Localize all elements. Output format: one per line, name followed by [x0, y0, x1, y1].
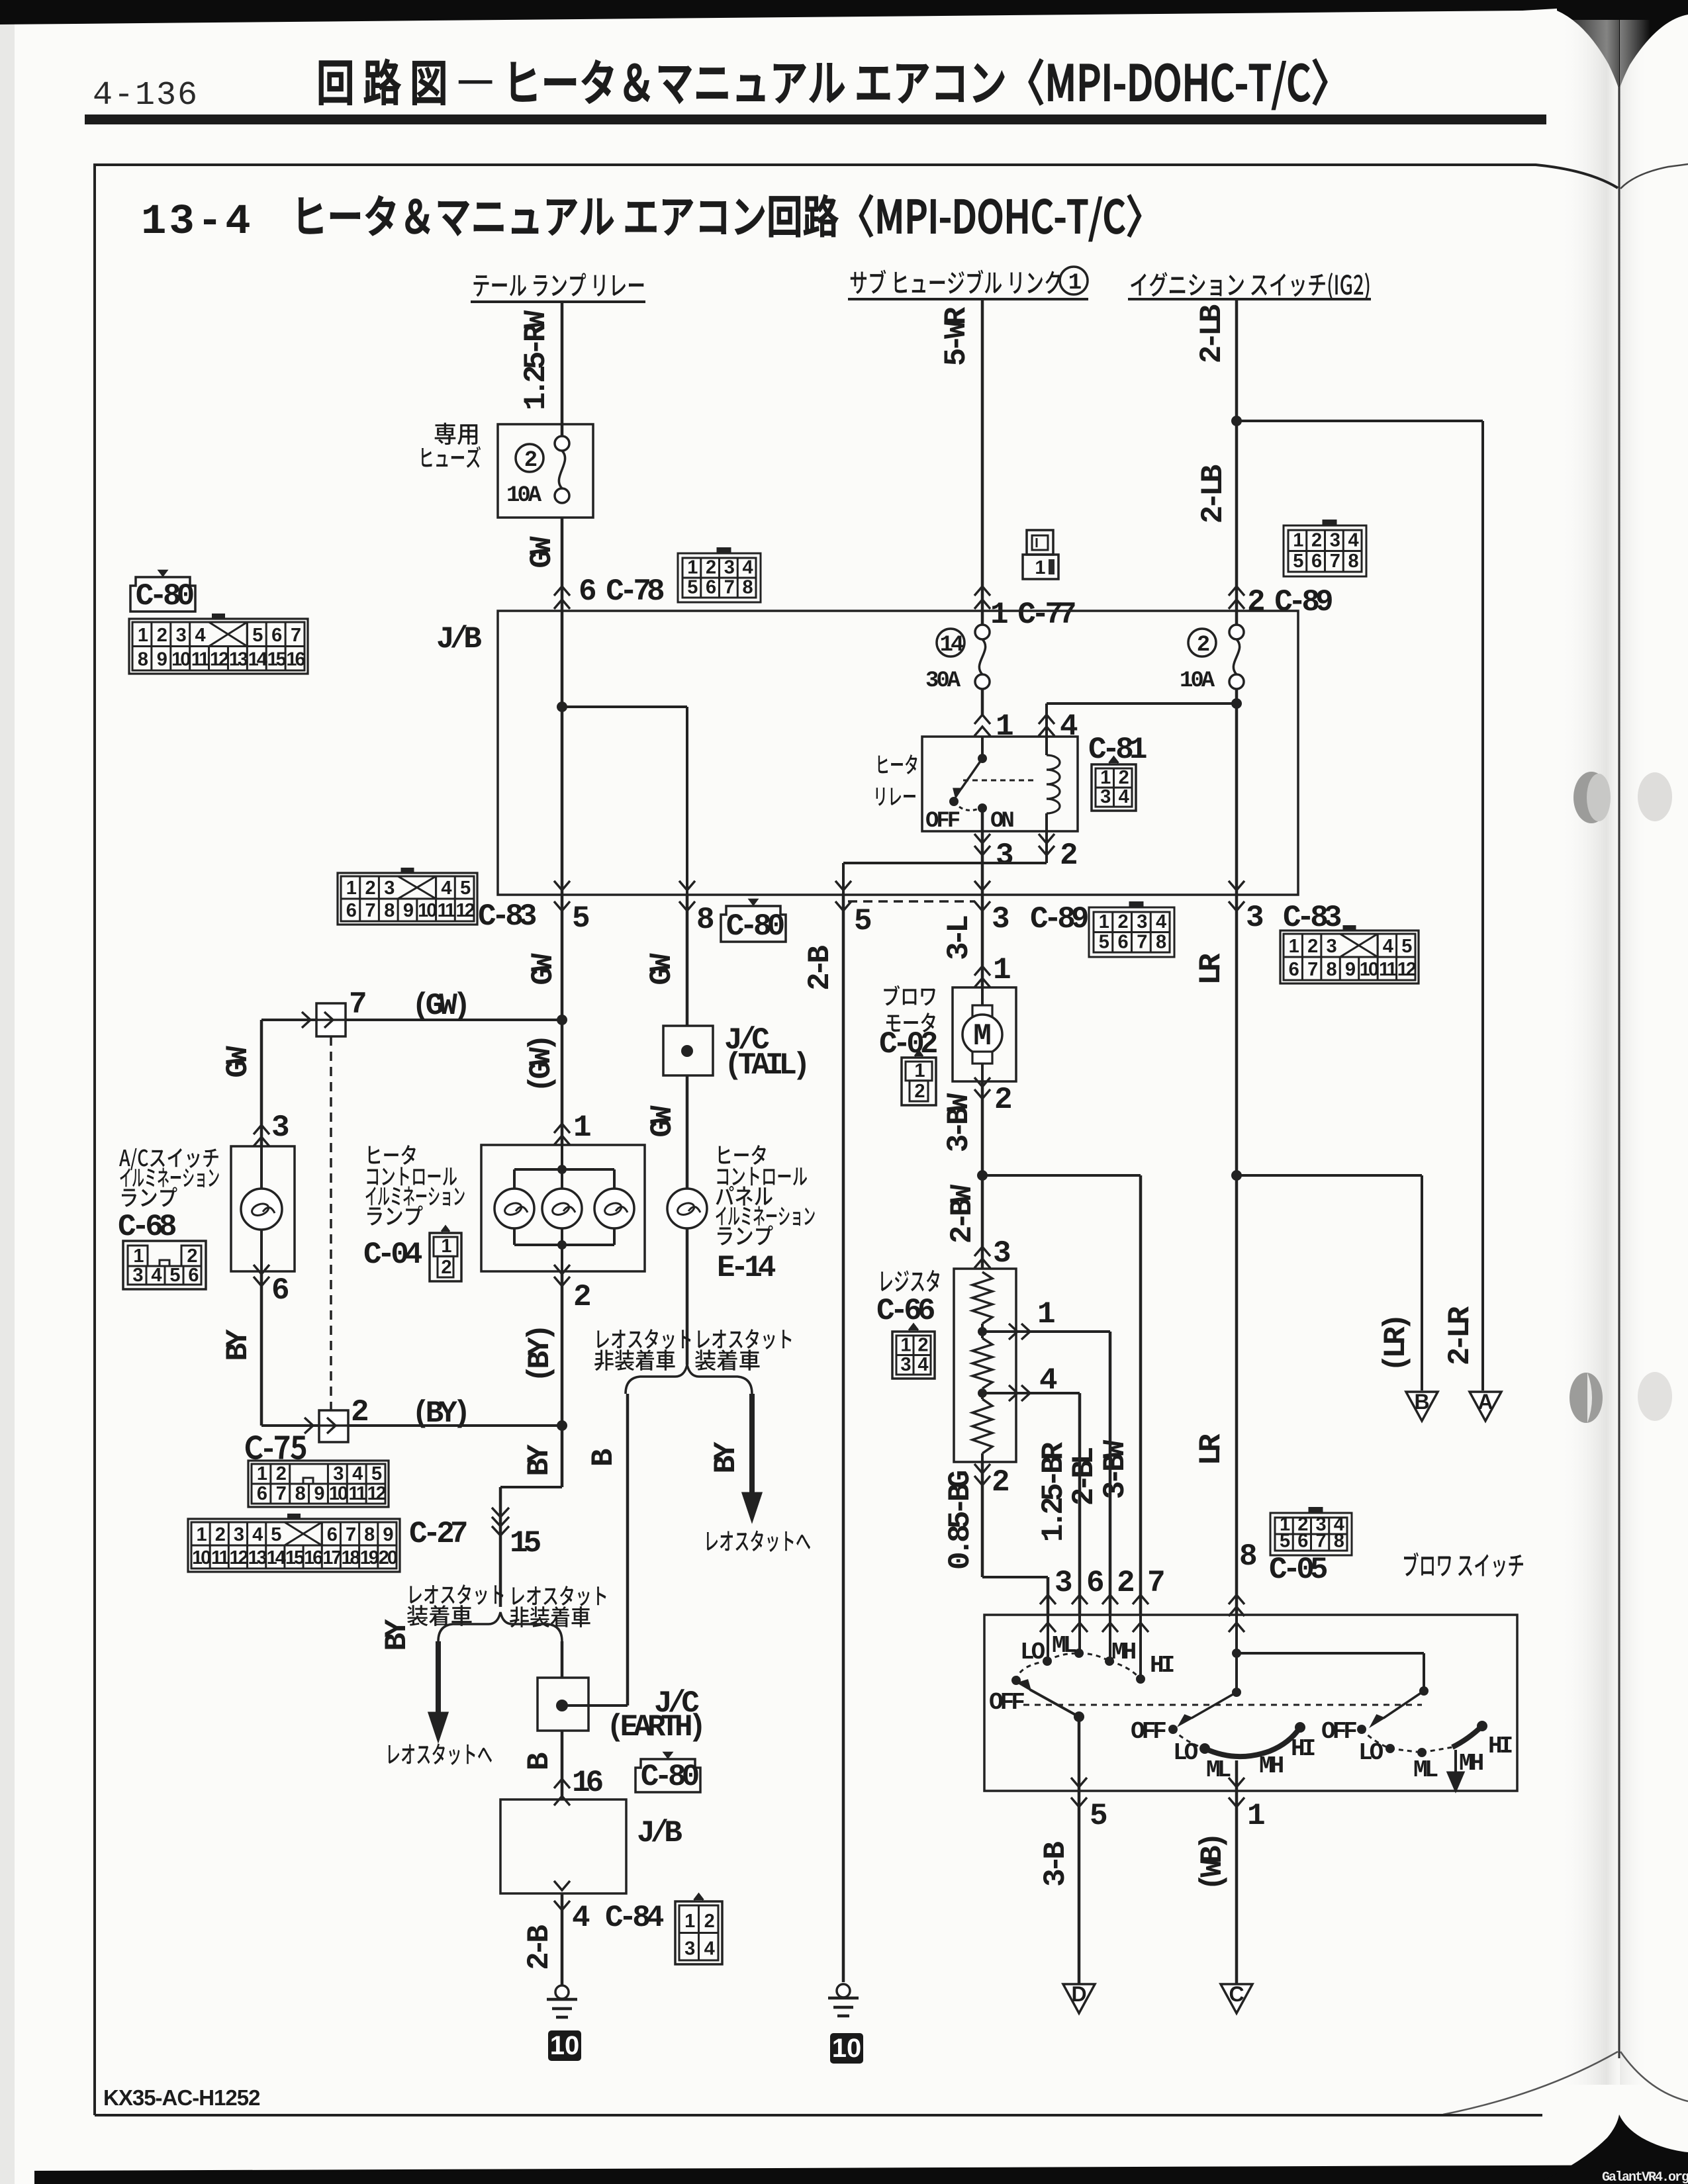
header thick rule	[85, 114, 1546, 124]
connector C-75 pin grid	[248, 1461, 389, 1507]
wire 1.25-RW from tail lamp relay	[561, 302, 564, 437]
svg-text:16: 16	[304, 1547, 323, 1569]
facing page top edge curve	[1620, 164, 1688, 189]
relay pin 3 exit	[981, 808, 984, 895]
arrow B	[1406, 1392, 1438, 1421]
connector C-83 pin grid right	[1280, 931, 1419, 983]
svg-text:10: 10	[192, 1547, 211, 1569]
exit label C-83 5	[338, 873, 477, 925]
svg-text:C-89: C-89	[1030, 902, 1088, 936]
OFF arrows	[1192, 1692, 1237, 1718]
svg-text:3-BW: 3-BW	[942, 1093, 976, 1152]
svg-text:HI: HI	[1150, 1652, 1174, 1679]
junction GW to C-80 branch	[557, 702, 567, 712]
blower motor box	[953, 987, 1016, 1081]
AC lamp entry 3	[254, 1125, 269, 1134]
svg-text:12: 12	[210, 649, 228, 670]
ground center	[837, 1984, 850, 1997]
AC lamp bulb	[241, 1189, 282, 1230]
connector C-66	[892, 1332, 935, 1379]
blower switch label	[1404, 1553, 1419, 1576]
dashed off link line	[1023, 1704, 1422, 1706]
heater control lamp entry 1	[554, 1124, 570, 1133]
svg-text:E-14: E-14	[717, 1251, 776, 1285]
svg-text:J/B: J/B	[637, 1816, 682, 1850]
svg-text:2: 2	[215, 1524, 225, 1545]
svg-text:30A: 30A	[925, 668, 961, 694]
switch col 8 wiring	[1232, 1649, 1241, 1658]
wire WB to arrow C	[1235, 1791, 1239, 1984]
svg-text:1: 1	[1068, 271, 1081, 296]
switch contact stubs	[1047, 1615, 1049, 1661]
svg-text:(TAIL): (TAIL)	[724, 1048, 806, 1083]
page bottom edge curves	[1443, 2052, 1618, 2115]
svg-text:10A: 10A	[1180, 668, 1215, 694]
svg-text:2: 2	[524, 448, 537, 473]
heater control lamp label	[369, 1146, 380, 1164]
svg-text:12: 12	[456, 900, 475, 921]
dedicated fuse box	[498, 424, 593, 518]
svg-text:17: 17	[322, 1547, 341, 1569]
svg-text:(LR): (LR)	[1379, 1318, 1413, 1372]
svg-text:12: 12	[229, 1547, 248, 1569]
svg-text:2: 2	[704, 1911, 714, 1932]
svg-text:14: 14	[248, 649, 267, 670]
wire 1.25-BR to switch pin 6	[1078, 1393, 1082, 1615]
dashed link C-75	[330, 1036, 332, 1410]
AC lamp exit 6	[254, 1265, 269, 1274]
connector C-75 label	[246, 1436, 262, 1459]
connector C-75 pin 7 inline	[316, 1003, 346, 1036]
svg-text:B: B	[1414, 1390, 1429, 1414]
BY arrow to rheostat	[436, 1641, 441, 1715]
svg-text:15: 15	[267, 649, 287, 670]
header title	[319, 61, 352, 105]
connector C-89 pin grid mid	[1089, 907, 1174, 957]
AC lamp label	[119, 1150, 130, 1166]
rheostat split labels 2	[597, 1330, 609, 1347]
wire B down to JB2	[561, 1731, 564, 1799]
heater control illumination lamp box	[481, 1145, 645, 1271]
svg-text:2-B: 2-B	[522, 1925, 557, 1970]
svg-text:12: 12	[1397, 959, 1416, 980]
svg-text:10: 10	[1360, 959, 1378, 980]
relay coil	[1047, 755, 1060, 770]
svg-text:11: 11	[438, 900, 456, 921]
svg-text:2: 2	[1307, 936, 1317, 957]
svg-text:OFF: OFF	[1321, 1718, 1356, 1745]
svg-text:10: 10	[832, 2034, 862, 2063]
svg-text:11: 11	[191, 649, 210, 670]
svg-text:2: 2	[1118, 911, 1128, 933]
junction relay coil feed	[1231, 698, 1242, 709]
junction to AC lamp	[557, 1015, 567, 1025]
svg-text:KX35-AC-H1252: KX35-AC-H1252	[103, 2085, 260, 2110]
svg-text:(GW): (GW)	[412, 989, 466, 1023]
svg-text:3-BW: 3-BW	[1098, 1439, 1133, 1499]
svg-text:7: 7	[276, 1483, 286, 1504]
connector C-89 pin grid top	[1284, 525, 1366, 576]
page ref 10 left	[548, 2030, 581, 2061]
resistor zigzags	[972, 1272, 992, 1324]
wire BY below E-14	[686, 1229, 689, 1365]
bottom black bar	[34, 2165, 1688, 2184]
svg-text:1.25-RW: 1.25-RW	[519, 310, 553, 410]
AC switch illumination lamp box	[231, 1146, 295, 1271]
motor label	[884, 985, 900, 1006]
lamp bulbs x3	[494, 1189, 534, 1228]
svg-text:2 C-89: 2 C-89	[1247, 585, 1332, 619]
svg-text:C-02: C-02	[879, 1027, 937, 1062]
blower switch box	[984, 1615, 1517, 1791]
svg-text:2: 2	[187, 1246, 197, 1267]
connector C-78 pin grid	[678, 553, 761, 602]
E-14 panel lamp bulb	[667, 1189, 707, 1228]
JB2 exit 4 C-84	[554, 1881, 570, 1890]
fuse 2 10A in JB	[1188, 629, 1216, 657]
junction block J/B box	[498, 611, 1298, 895]
wire 3-B to arrow D	[1078, 1791, 1081, 1984]
svg-text:10: 10	[550, 2031, 580, 2060]
svg-text:10: 10	[171, 649, 190, 670]
dashed selector arc	[1016, 1661, 1047, 1680]
connector C-84	[675, 1901, 722, 1964]
wire 5-WR from sub fusible link	[981, 299, 984, 625]
svg-text:2: 2	[441, 1257, 451, 1278]
wire to C-75 pin2	[261, 1424, 320, 1427]
svg-text:LO: LO	[1020, 1639, 1045, 1666]
svg-text:A: A	[1477, 1390, 1493, 1414]
svg-text:C: C	[1229, 1982, 1244, 2006]
rheostat split labels 1	[410, 1586, 422, 1603]
connector C-81 pin grid	[1092, 764, 1136, 811]
svg-text:HI: HI	[1488, 1733, 1512, 1760]
page ref 10 center	[830, 2033, 863, 2064]
lamp bus wires	[561, 1145, 563, 1169]
wire GW below JB	[561, 895, 564, 1145]
svg-text:15: 15	[510, 1526, 541, 1561]
svg-text:J/B: J/B	[436, 622, 481, 657]
svg-text:12: 12	[367, 1483, 385, 1504]
wire to C-75 pin7	[318, 1019, 562, 1021]
label ignition switch IG2	[1131, 273, 1146, 295]
motor entry 1	[974, 966, 990, 976]
connector C-77 symbol	[1027, 530, 1053, 555]
svg-text:7: 7	[291, 625, 301, 646]
binder hole pair 1	[1573, 772, 1609, 823]
svg-text:C-04: C-04	[363, 1238, 422, 1272]
svg-text:C-80: C-80	[726, 909, 784, 944]
relay pin 4 entry	[1039, 715, 1055, 724]
relay pin 2 exit	[1039, 834, 1055, 843]
svg-text:18: 18	[341, 1547, 360, 1569]
svg-text:C-68: C-68	[118, 1210, 176, 1244]
svg-text:(WB): (WB)	[1196, 1837, 1230, 1891]
svg-text:OFF: OFF	[925, 809, 960, 834]
selector arm	[1074, 1711, 1084, 1722]
svg-text:ON: ON	[990, 809, 1013, 834]
resistor tap 4	[978, 1388, 987, 1398]
switch exit 5	[1078, 1717, 1081, 1791]
svg-text:2: 2	[157, 625, 167, 646]
resistor entry 3	[974, 1247, 990, 1256]
connector entry 2 C-89	[1229, 586, 1244, 596]
svg-text:(BY): (BY)	[523, 1328, 557, 1383]
C-27 pin 15 crossing	[492, 1508, 509, 1517]
svg-text:OFF: OFF	[989, 1689, 1024, 1716]
svg-text:13-4: 13-4	[141, 199, 254, 246]
svg-text:(GW): (GW)	[524, 1038, 559, 1093]
svg-text:HI: HI	[1291, 1735, 1315, 1762]
connector C-27 pin grid	[188, 1519, 400, 1572]
svg-text:7: 7	[724, 576, 734, 598]
svg-text:3-B: 3-B	[1039, 1842, 1073, 1887]
svg-text:C-05: C-05	[1269, 1553, 1327, 1587]
svg-text:14: 14	[267, 1547, 286, 1569]
wire left jog to C-27 15	[500, 1486, 562, 1488]
C-05 entry 8	[1229, 1595, 1244, 1604]
svg-text:C-66: C-66	[876, 1294, 935, 1328]
resistor exit 2	[974, 1464, 990, 1473]
JC EARTH box	[538, 1678, 588, 1731]
right speed contact group	[1362, 1729, 1390, 1749]
wire 3-L to motor	[981, 895, 984, 987]
heater relay box	[922, 737, 1078, 831]
svg-text:7: 7	[1137, 931, 1147, 952]
top right page gutter dark corner	[1557, 0, 1688, 90]
junction LR branch	[1231, 1170, 1242, 1181]
label sub fusible link	[851, 272, 867, 295]
wire relay pin2 to 2-B	[1045, 831, 1048, 863]
svg-text:2-LB: 2-LB	[1196, 465, 1231, 523]
svg-text:OFF: OFF	[1131, 1718, 1166, 1745]
E-14 label block	[719, 1146, 730, 1164]
middle speed contact group	[1173, 1729, 1205, 1749]
junction BY	[557, 1420, 567, 1431]
bottom right page curl dark corner	[1536, 2115, 1688, 2184]
svg-text:C-83: C-83	[478, 899, 536, 934]
svg-text:16: 16	[286, 649, 305, 670]
svg-text:7: 7	[365, 900, 375, 921]
relay label heater relay	[878, 756, 888, 774]
svg-text:4-136: 4-136	[93, 77, 199, 114]
label tail lamp relay	[474, 275, 489, 296]
junction ignition branch	[1231, 416, 1242, 426]
JB2 entry 16 C-80	[554, 1779, 570, 1788]
heater lamp exit 2	[554, 1265, 570, 1274]
circled 1	[1060, 267, 1088, 295]
arrow C	[1221, 1984, 1252, 2013]
svg-text:20: 20	[379, 1547, 397, 1569]
junction motor to switch HI	[977, 1170, 988, 1181]
wire GW to E-14 lamp	[686, 1075, 689, 1189]
svg-text:11: 11	[211, 1547, 230, 1569]
BY arrow to rheostat 2	[749, 1394, 755, 1496]
svg-text:2: 2	[706, 557, 716, 578]
junction block 2 box	[500, 1799, 626, 1893]
wire 2-B long from relay	[842, 895, 845, 1982]
svg-text:(EARTH): (EARTH)	[606, 1710, 702, 1745]
svg-text:2: 2	[917, 1335, 927, 1356]
connector entry 1 C-77	[974, 586, 990, 596]
svg-text:2-B: 2-B	[803, 946, 837, 991]
svg-text:D: D	[1071, 1982, 1086, 2006]
wire 10A fuse to junction	[1235, 689, 1239, 895]
wire down to AC switch lamp	[261, 1019, 318, 1021]
resistor tap 1	[978, 1327, 987, 1336]
svg-text:LO: LO	[1358, 1739, 1383, 1766]
motor exit 2	[974, 1077, 990, 1087]
svg-text:2-BL: 2-BL	[1067, 1447, 1102, 1506]
switch entries chevrons	[1040, 1595, 1056, 1604]
relay dashed actuator line	[963, 780, 1033, 782]
wire GW to JC TAIL	[686, 895, 689, 1026]
arrow A	[1470, 1392, 1501, 1421]
connector C-02	[902, 1058, 936, 1105]
wire B to JC EARTH	[561, 1641, 564, 1678]
svg-text:2: 2	[1311, 530, 1321, 551]
connector entry 6 C-78	[554, 586, 570, 596]
connector C-80 label top left	[130, 577, 195, 612]
wire 2-LB from ignition switch	[1235, 299, 1239, 625]
svg-text:3-L: 3-L	[942, 916, 976, 960]
svg-text:MH: MH	[1259, 1752, 1284, 1780]
svg-text:1.25-BR: 1.25-BR	[1037, 1441, 1071, 1542]
switch fixed contacts	[1043, 1657, 1052, 1666]
svg-text:GalantVR4.org: GalantVR4.org	[1602, 2170, 1688, 2184]
wire 0.85-BG	[981, 1462, 984, 1577]
svg-text:2: 2	[914, 1081, 924, 1102]
dashed wire variant	[848, 900, 975, 903]
svg-text:2-BW: 2-BW	[945, 1184, 980, 1244]
switch exit 1	[1235, 1760, 1239, 1791]
label senyou fuse	[435, 423, 456, 445]
svg-text:2: 2	[276, 1463, 286, 1484]
wire branch to arrow B	[1237, 1174, 1422, 1177]
wire 3-BW motor down	[981, 1081, 984, 1269]
relay contact arm	[981, 737, 984, 758]
split brace 2	[626, 1365, 752, 1394]
JC TAIL box	[663, 1026, 713, 1075]
svg-text:7: 7	[1316, 1531, 1326, 1552]
svg-text:7: 7	[1307, 959, 1317, 980]
svg-text:13: 13	[248, 1547, 267, 1569]
svg-text:11: 11	[1379, 959, 1397, 980]
wire to relay pin 4	[1047, 702, 1237, 705]
connector C-05 pin grid	[1270, 1513, 1352, 1555]
svg-text:11: 11	[348, 1483, 367, 1504]
fuse 14 30A in JB	[937, 629, 964, 657]
svg-text:7: 7	[1330, 551, 1340, 572]
svg-text:14: 14	[940, 633, 964, 658]
connector C-80 pin grid 16	[129, 619, 308, 674]
svg-text:C-80: C-80	[136, 579, 193, 614]
resistor box C-66	[954, 1269, 1016, 1462]
wire branch to arrow A	[1237, 420, 1483, 422]
svg-text:C-84: C-84	[605, 1901, 664, 1935]
relay pin 1 entry	[974, 715, 990, 724]
wire from EARTH to B riser	[562, 1704, 628, 1707]
arrow D	[1063, 1984, 1095, 2013]
svg-text:2: 2	[1197, 633, 1209, 658]
svg-text:7: 7	[346, 1524, 355, 1545]
blower motor symbol	[981, 987, 984, 1008]
wire BY down	[561, 1426, 564, 1487]
binder hole pair 2	[1570, 1373, 1603, 1423]
svg-text:15: 15	[285, 1547, 305, 1569]
page gutter line	[1618, 86, 1620, 2058]
svg-text:6 C-78: 6 C-78	[579, 574, 664, 609]
svg-text:10A: 10A	[506, 483, 542, 508]
wire LR from JB	[1235, 895, 1239, 1615]
svg-text:1 C-77: 1 C-77	[990, 598, 1075, 632]
wire 2-BL to switch pin 2	[1109, 1332, 1112, 1615]
connector C-68 pin grid	[123, 1241, 206, 1289]
svg-text:10: 10	[418, 900, 436, 921]
wire GW inside JB	[561, 611, 564, 895]
svg-text:C-80: C-80	[641, 1760, 698, 1794]
wire branch to JC TAIL exit 8	[562, 705, 687, 708]
resistor label	[881, 1271, 892, 1291]
svg-text:0.85-BG: 0.85-BG	[943, 1471, 978, 1570]
svg-text:ML: ML	[1206, 1756, 1231, 1784]
svg-text:2-LR: 2-LR	[1443, 1306, 1477, 1365]
svg-text:19: 19	[360, 1547, 379, 1569]
ground left	[555, 1985, 569, 1999]
svg-text:16: 16	[572, 1766, 603, 1800]
svg-text:ML: ML	[1413, 1756, 1438, 1784]
svg-text:2-LB: 2-LB	[1195, 304, 1229, 363]
split brace 1	[438, 1612, 562, 1641]
svg-text:C-27: C-27	[409, 1517, 467, 1551]
arrow down to box bottom	[1454, 1750, 1457, 1782]
svg-text:13: 13	[229, 649, 248, 670]
wire 3-BW to switch pin 7	[1139, 1175, 1143, 1615]
svg-text:MH: MH	[1111, 1639, 1136, 1666]
svg-text:2: 2	[1119, 767, 1129, 788]
svg-text:2: 2	[365, 878, 375, 899]
svg-text:5-WR: 5-WR	[939, 306, 974, 366]
JB bottom exits	[554, 881, 570, 890]
wire GW fuse to JB	[561, 518, 564, 611]
connector C-75 pin 2 inline	[319, 1410, 348, 1442]
top scanner black bar	[0, 0, 1568, 24]
svg-text:LO: LO	[1173, 1739, 1198, 1766]
svg-text:M: M	[973, 1019, 992, 1054]
connector C-04	[430, 1233, 461, 1281]
svg-text:10: 10	[329, 1483, 348, 1504]
fuse 2 10A symbol	[555, 436, 569, 451]
